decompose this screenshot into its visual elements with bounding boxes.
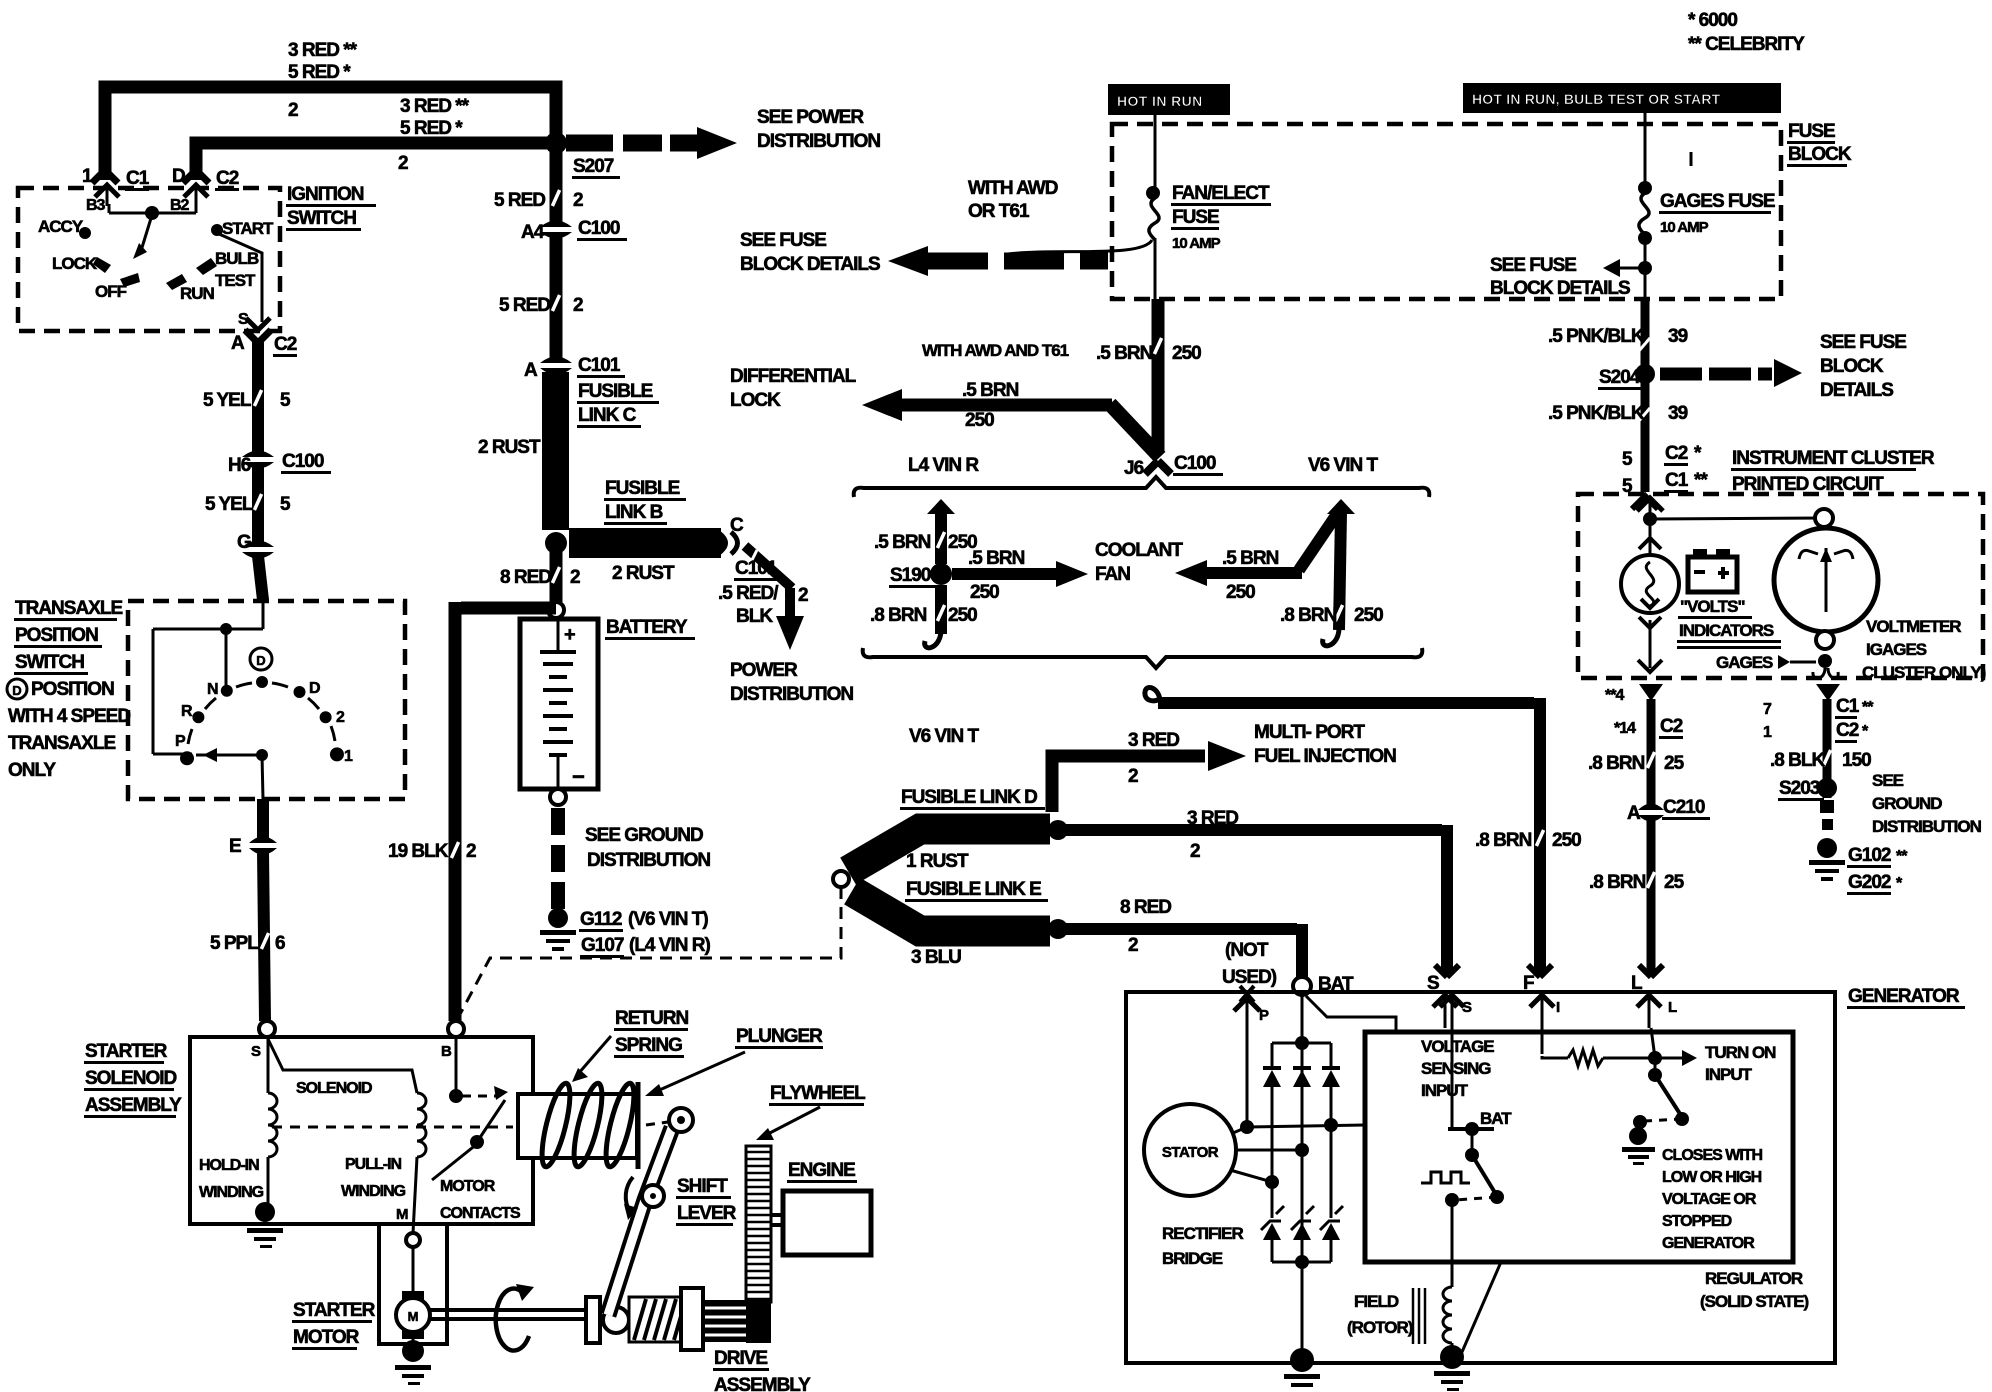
svg-text:C101: C101 — [735, 558, 778, 579]
svg-text:START: START — [222, 219, 274, 238]
svg-text:10 AMP: 10 AMP — [1172, 235, 1221, 252]
svg-text:L4 VIN R: L4 VIN R — [908, 455, 979, 476]
svg-text:BLOCK DETAILS: BLOCK DETAILS — [740, 254, 880, 275]
svg-text:2: 2 — [1190, 841, 1200, 862]
svg-text:A4: A4 — [521, 222, 545, 243]
svg-text:D: D — [256, 653, 265, 668]
svg-text:VOLTMETER: VOLTMETER — [1866, 617, 1961, 636]
svg-text:DISTRIBUTION: DISTRIBUTION — [1872, 817, 1982, 836]
svg-text:COOLANT: COOLANT — [1095, 540, 1183, 561]
svg-text:5 RED *: 5 RED * — [288, 62, 351, 83]
svg-text:IGNITION: IGNITION — [287, 184, 364, 205]
svg-text:SEE FUSE: SEE FUSE — [1490, 255, 1576, 276]
svg-text:B: B — [441, 1043, 452, 1060]
svg-text:.5 BRN: .5 BRN — [1222, 548, 1279, 569]
svg-text:STOPPED: STOPPED — [1662, 1213, 1732, 1230]
svg-text:POWER: POWER — [730, 660, 798, 681]
svg-text:BLOCK: BLOCK — [1788, 144, 1852, 165]
svg-text:GAGES FUSE: GAGES FUSE — [1660, 191, 1775, 212]
svg-text:5: 5 — [280, 494, 291, 515]
svg-text:2: 2 — [570, 567, 580, 588]
svg-text:2: 2 — [398, 153, 408, 174]
svg-text:P: P — [1259, 1007, 1269, 1024]
svg-text:C100: C100 — [1174, 453, 1216, 474]
svg-text:G202: G202 — [1848, 872, 1891, 893]
svg-text:−: − — [572, 764, 585, 789]
svg-text:SWITCH: SWITCH — [287, 208, 356, 229]
svg-text:G112: G112 — [580, 909, 622, 930]
svg-text:5 YEL: 5 YEL — [205, 494, 254, 515]
svg-text:5 RED *: 5 RED * — [400, 118, 463, 139]
svg-text:TRANSAXLE: TRANSAXLE — [15, 598, 122, 619]
svg-text:C2: C2 — [216, 168, 239, 189]
svg-text:3 RED **: 3 RED ** — [288, 40, 358, 61]
svg-text:CONTACTS: CONTACTS — [440, 1205, 521, 1222]
svg-text:**: ** — [1694, 470, 1708, 491]
svg-text:RUN: RUN — [180, 284, 215, 303]
svg-text:WITH AWD: WITH AWD — [968, 178, 1058, 199]
svg-text:DISTRIBUTION: DISTRIBUTION — [757, 131, 880, 152]
svg-text:3 RED: 3 RED — [1187, 808, 1238, 829]
svg-text:19 BLK: 19 BLK — [388, 841, 449, 862]
svg-text:DRIVE: DRIVE — [714, 1348, 767, 1369]
svg-text:PRINTED CIRCUIT: PRINTED CIRCUIT — [1732, 474, 1884, 495]
svg-text:TRANSAXLE: TRANSAXLE — [8, 733, 115, 754]
svg-text:BATTERY: BATTERY — [606, 617, 688, 638]
svg-text:.8 BRN: .8 BRN — [870, 605, 927, 626]
svg-text:J6: J6 — [1124, 458, 1144, 479]
svg-text:POSITION: POSITION — [15, 625, 98, 646]
svg-text:FLYWHEEL: FLYWHEEL — [770, 1083, 866, 1104]
svg-text:250: 250 — [970, 582, 999, 603]
svg-text:BAT: BAT — [1318, 974, 1354, 995]
svg-text:RETURN: RETURN — [615, 1008, 688, 1029]
svg-text:IGAGES: IGAGES — [1866, 640, 1927, 659]
svg-text:D: D — [172, 166, 185, 187]
svg-text:S207: S207 — [573, 156, 614, 177]
svg-text:SOLENOID: SOLENOID — [85, 1068, 177, 1089]
svg-text:C100: C100 — [282, 451, 324, 472]
svg-text:LINK C: LINK C — [578, 405, 637, 426]
svg-text:SEE: SEE — [1872, 771, 1904, 790]
svg-text:2: 2 — [1128, 935, 1138, 956]
svg-text:*14: *14 — [1614, 720, 1636, 737]
svg-text:FAN/ELECT: FAN/ELECT — [1172, 183, 1270, 204]
svg-text:8 RED: 8 RED — [500, 567, 551, 588]
svg-text:C1: C1 — [126, 168, 150, 189]
svg-text:SEE FUSE: SEE FUSE — [1820, 332, 1906, 353]
svg-text:BRIDGE: BRIDGE — [1162, 1249, 1223, 1268]
svg-text:M: M — [408, 1309, 419, 1324]
svg-text:SOLENOID: SOLENOID — [296, 1080, 372, 1097]
svg-text:USED): USED) — [1222, 967, 1277, 988]
svg-text:.5 BRN: .5 BRN — [962, 380, 1019, 401]
svg-text:SEE FUSE: SEE FUSE — [740, 230, 826, 251]
svg-text:BLOCK DETAILS: BLOCK DETAILS — [1490, 278, 1630, 299]
svg-text:3 BLU: 3 BLU — [911, 947, 961, 968]
svg-text:FAN: FAN — [1095, 564, 1130, 585]
svg-text:C2: C2 — [274, 334, 297, 355]
svg-text:STARTER: STARTER — [293, 1300, 376, 1321]
svg-text:TEST: TEST — [215, 271, 256, 290]
svg-text:S203: S203 — [1779, 778, 1820, 799]
svg-text:39: 39 — [1668, 326, 1688, 347]
svg-text:HOLD-IN: HOLD-IN — [199, 1157, 259, 1174]
svg-text:A: A — [231, 333, 245, 354]
svg-text:V6 VIN T: V6 VIN T — [909, 726, 979, 747]
svg-text:FUSE: FUSE — [1788, 121, 1835, 142]
svg-text:ASSEMBLY: ASSEMBLY — [85, 1095, 182, 1116]
svg-text:FUSIBLE LINK D: FUSIBLE LINK D — [901, 787, 1037, 808]
svg-text:7: 7 — [1763, 701, 1772, 718]
svg-text:+: + — [564, 624, 576, 646]
svg-text:SPRING: SPRING — [615, 1035, 682, 1056]
svg-text:BAT: BAT — [1480, 1109, 1512, 1128]
svg-text:ENGINE: ENGINE — [788, 1160, 855, 1181]
svg-text:C2: C2 — [1836, 720, 1859, 741]
svg-text:DIFFERENTIAL: DIFFERENTIAL — [730, 366, 857, 387]
svg-text:GENERATOR: GENERATOR — [1662, 1235, 1755, 1252]
svg-text:"VOLTS": "VOLTS" — [1680, 597, 1745, 616]
svg-text:MOTOR: MOTOR — [293, 1327, 360, 1348]
svg-text:5 RED: 5 RED — [494, 190, 545, 211]
svg-text:150: 150 — [1842, 750, 1871, 771]
svg-text:GAGES: GAGES — [1716, 653, 1773, 672]
svg-text:3 RED **: 3 RED ** — [400, 96, 470, 117]
svg-text:SWITCH: SWITCH — [15, 652, 84, 673]
svg-text:S190: S190 — [890, 565, 931, 586]
svg-text:10 AMP: 10 AMP — [1660, 219, 1709, 236]
svg-text:GROUND: GROUND — [1872, 794, 1942, 813]
svg-text:F: F — [1523, 973, 1534, 994]
svg-text:GENERATOR: GENERATOR — [1848, 986, 1960, 1007]
svg-text:DISTRIBUTION: DISTRIBUTION — [587, 850, 710, 871]
svg-text:2: 2 — [798, 585, 808, 606]
svg-text:S: S — [1462, 999, 1472, 1016]
svg-text:25: 25 — [1664, 753, 1685, 774]
svg-text:HOT IN RUN, BULB TEST OR START: HOT IN RUN, BULB TEST OR START — [1472, 91, 1721, 107]
svg-text:**4: **4 — [1605, 687, 1624, 704]
svg-text:HOT IN RUN: HOT IN RUN — [1117, 93, 1203, 109]
svg-text:L: L — [1631, 973, 1643, 994]
svg-text:.8 BRN: .8 BRN — [1589, 872, 1646, 893]
svg-text:5: 5 — [1622, 476, 1633, 497]
svg-text:FIELD: FIELD — [1354, 1292, 1399, 1311]
svg-text:RECTIFIER: RECTIFIER — [1162, 1224, 1243, 1243]
svg-text:(L4 VIN R): (L4 VIN R) — [629, 935, 710, 956]
svg-text:ASSEMBLY: ASSEMBLY — [714, 1375, 811, 1392]
svg-text:C1: C1 — [1836, 696, 1860, 717]
svg-text:LINK B: LINK B — [605, 502, 663, 523]
svg-text:**: ** — [1862, 699, 1874, 716]
svg-text:(V6 VIN T): (V6 VIN T) — [628, 909, 708, 930]
svg-text:INDICATORS: INDICATORS — [1679, 621, 1774, 640]
svg-text:8 RED: 8 RED — [1120, 897, 1171, 918]
svg-text:.5 BRN: .5 BRN — [874, 532, 931, 553]
svg-text:2 RUST: 2 RUST — [478, 437, 541, 458]
svg-text:LEVER: LEVER — [677, 1203, 737, 1224]
svg-text:WITH AWD AND T61: WITH AWD AND T61 — [922, 341, 1069, 360]
svg-text:S204: S204 — [1599, 367, 1641, 388]
svg-text:2: 2 — [1128, 766, 1138, 787]
svg-text:5: 5 — [1622, 449, 1633, 470]
svg-text:FUSIBLE: FUSIBLE — [605, 478, 680, 499]
svg-text:PLUNGER: PLUNGER — [736, 1026, 823, 1047]
svg-text:INPUT: INPUT — [1421, 1081, 1469, 1100]
svg-text:A: A — [1627, 803, 1641, 824]
svg-text:3 RED: 3 RED — [1128, 730, 1179, 751]
svg-text:G102: G102 — [1848, 845, 1891, 866]
svg-text:C101: C101 — [578, 355, 621, 376]
svg-text:(SOLID STATE): (SOLID STATE) — [1700, 1292, 1809, 1311]
svg-text:POSITION: POSITION — [31, 679, 114, 700]
svg-text:BLK: BLK — [736, 606, 773, 627]
svg-text:1: 1 — [344, 748, 353, 765]
svg-text:A: A — [524, 360, 538, 381]
svg-text:MOTOR: MOTOR — [440, 1178, 496, 1195]
svg-text:.8 BRN: .8 BRN — [1475, 830, 1532, 851]
svg-text:FUSE: FUSE — [1172, 207, 1219, 228]
svg-text:SEE GROUND: SEE GROUND — [585, 825, 703, 846]
svg-text:INPUT: INPUT — [1705, 1065, 1753, 1084]
svg-text:5: 5 — [280, 390, 291, 411]
svg-text:SENSING: SENSING — [1421, 1059, 1491, 1078]
svg-text:(ROTOR): (ROTOR) — [1347, 1318, 1413, 1337]
svg-text:DETAILS: DETAILS — [1820, 380, 1893, 401]
svg-text:P: P — [175, 733, 186, 750]
svg-text:FUSIBLE: FUSIBLE — [578, 381, 653, 402]
svg-text:.5 BRN: .5 BRN — [1096, 343, 1153, 364]
svg-text:.5 BRN: .5 BRN — [968, 548, 1025, 569]
svg-text:1: 1 — [1763, 724, 1772, 741]
svg-text:LOCK: LOCK — [730, 390, 781, 411]
svg-text:250: 250 — [1172, 343, 1201, 364]
svg-text:TURN ON: TURN ON — [1705, 1043, 1776, 1062]
svg-text:STATOR: STATOR — [1162, 1144, 1219, 1161]
svg-text:.5 PNK/BLK: .5 PNK/BLK — [1548, 326, 1645, 347]
svg-text:VOLTAGE OR: VOLTAGE OR — [1662, 1191, 1757, 1208]
svg-text:C100: C100 — [578, 218, 620, 239]
svg-text:.8 BLK: .8 BLK — [1770, 750, 1825, 771]
svg-text:DISTRIBUTION: DISTRIBUTION — [730, 684, 853, 705]
svg-text:REGULATOR: REGULATOR — [1705, 1269, 1803, 1288]
svg-text:OFF: OFF — [95, 282, 127, 301]
svg-text:(NOT: (NOT — [1225, 940, 1269, 961]
svg-text:G: G — [237, 532, 251, 553]
svg-text:PULL-IN: PULL-IN — [345, 1156, 402, 1173]
svg-text:LOW OR HIGH: LOW OR HIGH — [1662, 1169, 1762, 1186]
svg-text:B2: B2 — [170, 197, 190, 214]
svg-text:250: 250 — [1552, 830, 1581, 851]
svg-text:S: S — [238, 311, 249, 328]
svg-text:.5 PNK/BLK: .5 PNK/BLK — [1548, 403, 1645, 424]
svg-text:5 RED: 5 RED — [499, 295, 550, 316]
svg-text:2: 2 — [573, 295, 583, 316]
svg-text:5 YEL: 5 YEL — [203, 390, 252, 411]
svg-text:VOLTAGE: VOLTAGE — [1421, 1037, 1494, 1056]
svg-text:CLUSTER ONLY): CLUSTER ONLY) — [1862, 663, 1986, 682]
svg-text:S: S — [251, 1043, 261, 1060]
svg-text:ONLY: ONLY — [8, 760, 56, 781]
svg-text:250: 250 — [965, 410, 994, 431]
svg-text:** CELEBRITY: ** CELEBRITY — [1688, 34, 1805, 55]
svg-text:2: 2 — [573, 190, 583, 211]
svg-text:SEE POWER: SEE POWER — [757, 107, 864, 128]
svg-text:B3: B3 — [86, 197, 106, 214]
svg-text:BULB: BULB — [215, 249, 259, 268]
svg-text:.8 BRN: .8 BRN — [1588, 753, 1645, 774]
svg-text:FUEL INJECTION: FUEL INJECTION — [1254, 746, 1396, 767]
svg-text:FUSIBLE LINK E: FUSIBLE LINK E — [906, 879, 1041, 900]
svg-text:1: 1 — [82, 166, 93, 187]
svg-text:39: 39 — [1668, 403, 1688, 424]
svg-text:S: S — [1427, 973, 1439, 994]
svg-text:25: 25 — [1664, 872, 1685, 893]
svg-text:SHIFT: SHIFT — [677, 1176, 728, 1197]
svg-text:C2: C2 — [1660, 716, 1683, 737]
svg-text:M: M — [396, 1206, 409, 1223]
svg-text:H6: H6 — [228, 455, 251, 476]
svg-text:WINDING: WINDING — [199, 1184, 264, 1201]
svg-text:250: 250 — [1354, 605, 1383, 626]
svg-text:.8 BRN: .8 BRN — [1280, 605, 1337, 626]
svg-text:6: 6 — [275, 933, 285, 954]
svg-text:* 6000: * 6000 — [1688, 10, 1737, 31]
svg-text:LOCK: LOCK — [52, 254, 98, 273]
svg-text:C210: C210 — [1663, 797, 1705, 818]
svg-text:**: ** — [1896, 848, 1908, 865]
svg-text:250: 250 — [1226, 582, 1255, 603]
svg-text:C1: C1 — [1665, 470, 1689, 491]
svg-text:ACCY: ACCY — [38, 217, 84, 236]
svg-text:D: D — [12, 683, 21, 698]
svg-text:C2: C2 — [1665, 443, 1688, 464]
svg-text:V6 VIN T: V6 VIN T — [1308, 455, 1378, 476]
svg-text:BLOCK: BLOCK — [1820, 356, 1884, 377]
svg-text:2: 2 — [466, 841, 476, 862]
svg-text:L: L — [1668, 999, 1677, 1016]
svg-text:2: 2 — [288, 100, 298, 121]
svg-text:E: E — [229, 836, 241, 857]
svg-text:.5 RED/: .5 RED/ — [718, 583, 779, 604]
svg-text:1 RUST: 1 RUST — [906, 851, 969, 872]
svg-text:250: 250 — [948, 605, 977, 626]
svg-text:C: C — [730, 515, 744, 536]
svg-text:D: D — [309, 680, 320, 697]
svg-text:G107: G107 — [581, 935, 624, 956]
svg-text:5 PPL: 5 PPL — [210, 933, 259, 954]
svg-text:INSTRUMENT CLUSTER: INSTRUMENT CLUSTER — [1732, 448, 1935, 469]
svg-text:OR T61: OR T61 — [968, 201, 1030, 222]
svg-text:2: 2 — [336, 709, 345, 726]
svg-text:I: I — [1556, 999, 1560, 1016]
svg-text:CLOSES WITH: CLOSES WITH — [1662, 1147, 1763, 1164]
svg-text:N: N — [207, 681, 218, 698]
svg-text:WINDING: WINDING — [341, 1183, 406, 1200]
svg-text:2 RUST: 2 RUST — [612, 563, 675, 584]
svg-text:R: R — [181, 703, 193, 720]
svg-text:WITH 4 SPEED: WITH 4 SPEED — [8, 706, 130, 727]
svg-text:MULTI- PORT: MULTI- PORT — [1254, 722, 1365, 743]
svg-text:STARTER: STARTER — [85, 1041, 168, 1062]
